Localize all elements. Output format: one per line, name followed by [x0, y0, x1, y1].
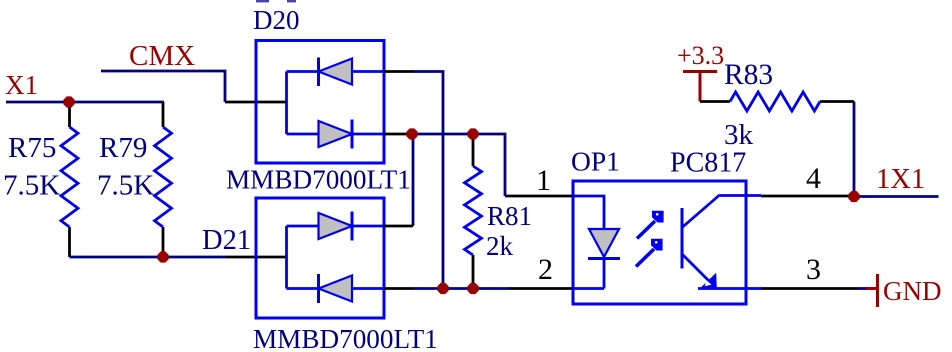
- wire net X1 horizontal: [6, 101, 164, 104]
- svg-text:7.5K: 7.5K: [97, 170, 154, 202]
- pin wire D20 bottom out: [384, 133, 412, 136]
- svg-text:4: 4: [806, 162, 821, 195]
- svg-text:OP1: OP1: [571, 146, 620, 177]
- pin wire OP1 pin4: [761, 195, 854, 198]
- wire link to D21 top: [412, 134, 415, 226]
- svg-text:3: 3: [806, 253, 821, 286]
- svg-text:1: 1: [536, 164, 551, 197]
- resistor R75: [61, 103, 78, 257]
- svg-text:GND: GND: [883, 276, 942, 306]
- pin wire D20 common: [225, 101, 287, 104]
- svg-text:R75: R75: [8, 132, 56, 164]
- svg-text:3k: 3k: [724, 119, 754, 151]
- wire GND stub: [857, 287, 866, 290]
- wire net pin1: [412, 134, 505, 196]
- svg-text:2k: 2k: [486, 231, 514, 261]
- wire net CMX: [101, 71, 225, 102]
- junction R81 top: [467, 128, 478, 139]
- OP1 light arrow 1: [637, 211, 664, 239]
- svg-text:1X1: 1X1: [876, 164, 925, 195]
- svg-text:R83: R83: [724, 59, 773, 91]
- D20 internal common bus: [285, 72, 288, 135]
- junction pin4 / R83: [848, 191, 859, 202]
- junction D20-top link: [437, 283, 448, 294]
- D21 bottom diode (points left): [287, 274, 385, 303]
- resistor R79: [155, 102, 172, 257]
- OP1 LED: [573, 196, 620, 289]
- wire net 1X1 horizontal: [854, 195, 939, 198]
- diode pair D20 box: [256, 41, 384, 164]
- svg-text:2: 2: [538, 253, 553, 286]
- pin wire D21 top out: [384, 225, 413, 228]
- svg-text:D21: D21: [202, 225, 251, 256]
- wire D20 top to pin2 net: [414, 72, 443, 289]
- D21 internal common bus: [285, 226, 288, 289]
- power +3.3 bar symbol: [683, 72, 717, 102]
- svg-text:MMBD7000LT1: MMBD7000LT1: [253, 324, 438, 352]
- optocoupler OP1 box: [573, 181, 746, 304]
- svg-text:PC817: PC817: [670, 148, 746, 179]
- junction D20 out / D21 link: [406, 128, 417, 139]
- resistor R81: [465, 139, 482, 284]
- junction R81 bottom: [467, 283, 478, 294]
- svg-text:7.5K: 7.5K: [3, 170, 60, 202]
- svg-text:CMX: CMX: [129, 40, 195, 72]
- diode pair D21 box: [256, 198, 384, 318]
- pin wire D21 bottom out: [384, 287, 413, 290]
- pin wire OP1 pin2: [509, 287, 573, 290]
- D20 top diode (points left): [287, 58, 385, 87]
- wire net 1X1 vertical: [853, 102, 856, 197]
- pin wire D20 top out: [384, 70, 414, 73]
- svg-text:R79: R79: [99, 132, 147, 164]
- svg-text:D20: D20: [253, 5, 300, 35]
- wire bottom net to D21: [70, 256, 226, 259]
- ground symbol: [866, 274, 878, 307]
- OP1 phototransistor: [682, 196, 761, 289]
- top edge cropped text remnants: [256, 0, 269, 2]
- pin wire D21 common: [225, 256, 287, 259]
- OP1 light arrow 2: [636, 239, 663, 267]
- pin wire OP1 pin1: [505, 195, 573, 198]
- svg-text:+3.3: +3.3: [677, 41, 724, 70]
- D20 bottom diode (points right): [287, 120, 385, 149]
- D21 top diode (points right): [287, 212, 385, 241]
- junction at R79 bottom: [157, 251, 168, 262]
- svg-text:R81: R81: [487, 201, 532, 231]
- wire net pin2: [413, 287, 509, 290]
- resistor R83: [700, 92, 854, 111]
- junction at X1/R75: [63, 96, 74, 107]
- svg-text:MMBD7000LT1: MMBD7000LT1: [226, 165, 411, 195]
- pin wire OP1 pin3: [761, 287, 857, 290]
- svg-text:X1: X1: [5, 70, 38, 100]
